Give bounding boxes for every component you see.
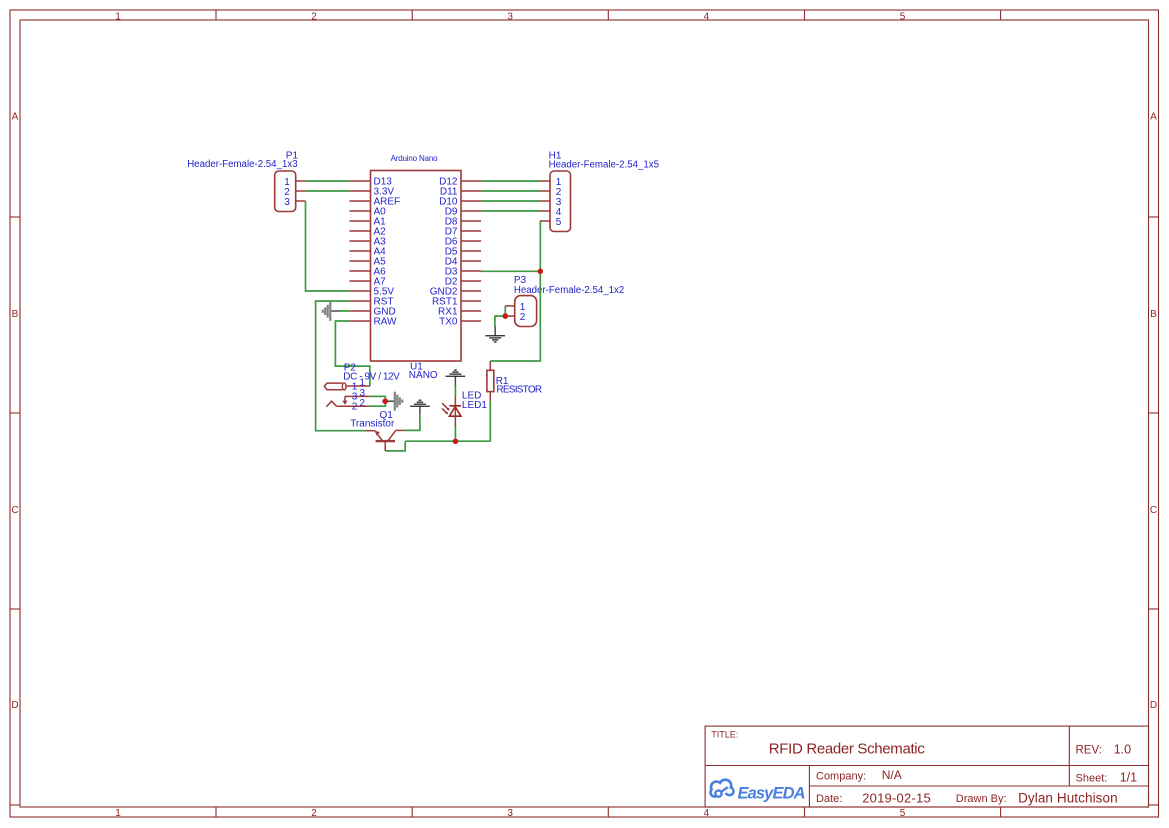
connector H1 xyxy=(540,150,659,231)
wire D12 to H1.1 xyxy=(481,180,540,182)
svg-text:TX0: TX0 xyxy=(439,317,458,328)
wire bottom rail xyxy=(405,440,490,442)
transistor Q1 xyxy=(350,410,404,451)
wire R1 bottom xyxy=(489,401,491,441)
svg-text:B: B xyxy=(1150,309,1157,320)
svg-text:3: 3 xyxy=(284,197,290,208)
svg-text:D: D xyxy=(11,700,18,711)
svg-text:Dylan Hutchison: Dylan Hutchison xyxy=(1018,791,1118,806)
svg-text:TITLE:: TITLE: xyxy=(711,730,738,740)
wire D10 to H1.3 xyxy=(481,200,540,202)
wire RST to Q1 left xyxy=(316,301,366,431)
wire D9 to H1.4 xyxy=(481,210,540,212)
svg-text:LED1: LED1 xyxy=(462,400,487,411)
junction node LED/rail xyxy=(453,439,459,445)
ground at P2 node (points right) xyxy=(387,392,402,411)
svg-text:Transistor: Transistor xyxy=(350,418,395,429)
svg-text:2: 2 xyxy=(311,808,317,819)
wire P3.1 to P3.2 xyxy=(504,306,506,316)
U1 labels xyxy=(391,154,439,381)
wire GND pin to ground xyxy=(340,310,350,312)
title block xyxy=(705,726,1148,807)
wire ground to LED anode xyxy=(454,386,456,397)
svg-text:Header-Female-2.54_1x3: Header-Female-2.54_1x3 xyxy=(187,159,297,170)
svg-text:3: 3 xyxy=(507,808,513,819)
U1 pin name labels xyxy=(374,177,401,328)
svg-text:RFID Reader Schematic: RFID Reader Schematic xyxy=(769,741,926,758)
junction node D3/H1.5/R1 xyxy=(538,269,544,275)
connector P1 xyxy=(187,150,305,211)
junction node P3.2 xyxy=(503,313,509,319)
wire P1.3 to 5.5V xyxy=(306,201,350,291)
wire P1.2 to 3.3V xyxy=(306,190,350,192)
svg-text:Drawn By:: Drawn By: xyxy=(956,793,1007,805)
svg-text:2019-02-15: 2019-02-15 xyxy=(862,790,931,805)
wire node D3 to R1 top xyxy=(490,271,540,361)
svg-text:RAW: RAW xyxy=(374,317,398,328)
LED LED1 xyxy=(442,391,487,426)
svg-text:Sheet:: Sheet: xyxy=(1076,773,1108,785)
svg-text:REV:: REV: xyxy=(1076,745,1102,757)
svg-text:D: D xyxy=(1150,700,1157,711)
wire P1.1 to D13 xyxy=(306,180,350,182)
svg-text:B: B xyxy=(12,309,19,320)
ground below P3 (points down) xyxy=(485,326,505,342)
svg-text:1: 1 xyxy=(115,12,121,23)
svg-text:5: 5 xyxy=(556,217,562,228)
svg-text:1.0: 1.0 xyxy=(1114,743,1131,757)
U1 right pins D12..TX0 xyxy=(461,181,481,321)
svg-text:2: 2 xyxy=(311,12,317,23)
svg-text:C: C xyxy=(1150,505,1157,516)
wire P2.3 to P2.2 via ground node xyxy=(370,396,385,406)
svg-text:NANO: NANO xyxy=(409,370,438,381)
svg-text:A: A xyxy=(1150,112,1157,123)
wire RAW to P2.1 xyxy=(335,321,370,386)
connector P2 DC jack xyxy=(324,363,400,413)
wire P3.2 to ground xyxy=(495,316,505,326)
svg-text:EasyEDA: EasyEDA xyxy=(738,784,806,802)
svg-text:5: 5 xyxy=(900,808,906,819)
resistor R1 xyxy=(487,361,542,401)
svg-text:Date:: Date: xyxy=(816,793,842,805)
ground at U1 GND pin (points left) xyxy=(323,302,340,321)
svg-text:C: C xyxy=(11,505,18,516)
svg-text:DC - 9V / 12V: DC - 9V / 12V xyxy=(343,372,400,383)
svg-text:4: 4 xyxy=(704,808,710,819)
connector P3 xyxy=(505,275,624,326)
svg-text:1: 1 xyxy=(115,808,121,819)
svg-text:Arduino Nano: Arduino Nano xyxy=(391,154,439,163)
svg-text:2: 2 xyxy=(360,398,366,409)
IC U1 Arduino Nano body xyxy=(371,171,462,362)
svg-text:2: 2 xyxy=(520,312,526,323)
svg-text:3: 3 xyxy=(507,12,513,23)
wire H1.5 down to node D3 xyxy=(539,221,541,271)
svg-text:Company:: Company: xyxy=(816,770,866,782)
svg-text:5: 5 xyxy=(900,12,906,23)
svg-text:2: 2 xyxy=(352,401,358,412)
svg-text:RESISTOR: RESISTOR xyxy=(496,385,542,396)
wire D11 to H1.2 xyxy=(481,190,540,192)
junction node P2 ground xyxy=(382,398,388,404)
svg-text:1/1: 1/1 xyxy=(1120,771,1137,785)
wire Q1 emitter jog xyxy=(385,441,405,451)
svg-text:Header-Female-2.54_1x5: Header-Female-2.54_1x5 xyxy=(549,160,659,171)
wire LED cathode down xyxy=(454,426,456,441)
ground above LED (points up) xyxy=(446,370,466,386)
svg-text:Header-Female-2.54_1x2: Header-Female-2.54_1x2 xyxy=(514,285,624,296)
U1 left pins D13..RAW xyxy=(350,181,371,321)
svg-text:4: 4 xyxy=(704,12,710,23)
wire D3 to node xyxy=(481,270,540,272)
svg-text:N/A: N/A xyxy=(882,768,902,782)
wire Q1 right to ground xyxy=(405,415,420,431)
ground at Q1 right (points up) xyxy=(410,400,430,414)
svg-text:A: A xyxy=(12,112,19,123)
EasyEDA logo xyxy=(709,778,805,802)
